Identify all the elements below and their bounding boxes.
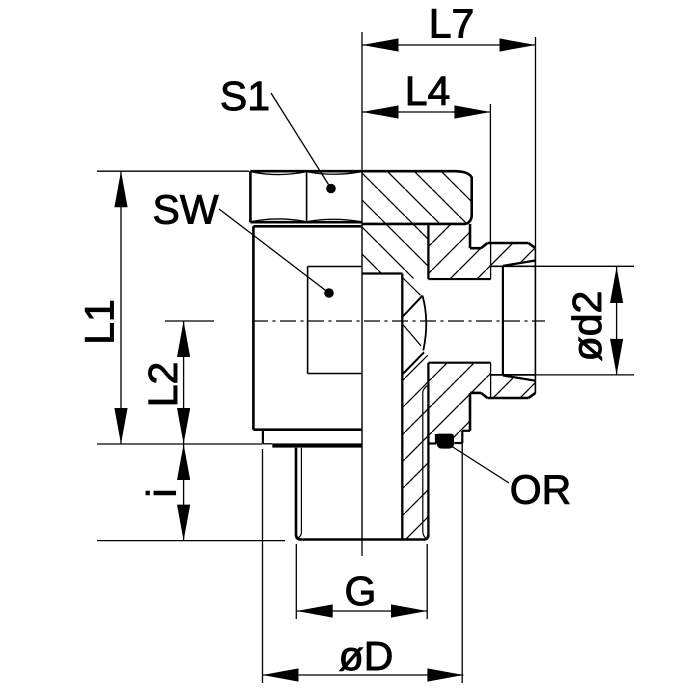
nut top edge [250, 171, 471, 177]
nut bottom edge left view [250, 221, 362, 224]
svg-text:i: i [139, 488, 185, 497]
groove left wall [435, 434, 437, 444]
oD arrow right [427, 668, 463, 681]
body right edge lower [469, 393, 472, 431]
L4 arrow left [363, 105, 399, 118]
dimension G [296, 544, 427, 619]
stud bottom right corner [424, 535, 429, 540]
body groove step horizontal [462, 430, 470, 432]
svg-text:SW: SW [152, 187, 218, 233]
oD right extension line [461, 453, 463, 683]
section dividing centerline vertical [361, 32, 363, 556]
nut hex interface line section [362, 223, 466, 226]
port countersink top [503, 261, 536, 266]
G arrow right [391, 604, 427, 617]
L2 dimension line [183, 321, 185, 444]
stud crest right section [427, 363, 429, 535]
port bottom right chamfer [529, 393, 536, 398]
L1 top extension line [97, 170, 249, 172]
chamber top edge [428, 278, 490, 280]
od2 top extension line [536, 265, 635, 267]
O-ring section blob OR [437, 434, 455, 449]
od2 dimension line [616, 267, 618, 375]
dimension L4 [363, 104, 491, 243]
port top left chamfer [481, 243, 488, 248]
od2 bottom extension line [536, 374, 635, 376]
nut section bottom right corner [466, 215, 472, 224]
stem tip cone upper [402, 296, 422, 317]
hatching region: stud right wall section [402, 352, 428, 539]
G right extension line [426, 544, 428, 619]
L4 dimension line [363, 111, 491, 113]
L2 arrow top [177, 321, 190, 357]
seat cone thin upper [403, 278, 421, 295]
nut facet chamfer arc top right [308, 172, 360, 174]
L1 bottom extension line [97, 443, 262, 445]
port top crest [488, 242, 529, 245]
chamber bottom edge [428, 362, 490, 364]
stud thread G left view [296, 448, 428, 540]
SW hex facet line bottom [308, 373, 362, 375]
svg-text:G: G [345, 568, 377, 614]
hatching region: stem strip section [362, 224, 428, 279]
body bottom edge [253, 428, 362, 431]
body groove step vertical [461, 431, 463, 443]
port bottom left chamfer [481, 393, 488, 398]
port bore bottom edge [491, 374, 536, 376]
L4 right extension line [489, 104, 491, 243]
label SW with leader [219, 209, 329, 293]
dimension L1 [97, 171, 262, 444]
washer left edge [262, 430, 264, 444]
dimension od2 [536, 266, 635, 375]
seat cone thin lower [403, 325, 421, 346]
port bottom crest [488, 397, 529, 400]
body section right side: port and interior [428, 224, 535, 454]
port bore top edge [491, 265, 536, 267]
body top edge [253, 225, 362, 228]
L1 dimension line [120, 171, 122, 444]
svg-text:S1: S1 [220, 73, 270, 119]
G left extension line [295, 544, 297, 619]
stud root left thin [298, 448, 301, 538]
svg-text:øD: øD [339, 633, 394, 679]
dimension L2 [165, 321, 214, 444]
body left edge [252, 226, 255, 429]
i arrow bottom [177, 505, 190, 541]
svg-text:L4: L4 [405, 68, 451, 114]
oD arrow left [263, 668, 299, 681]
oD dimension line [263, 674, 464, 676]
svg-text:ød2: ød2 [564, 291, 610, 362]
stem outer wall vertical [427, 224, 429, 279]
i arrow top [177, 444, 190, 480]
body outline left view [253, 226, 362, 429]
hatching region: body bottom and lower port wall [428, 363, 535, 443]
port thread start vertical bottom [490, 363, 492, 398]
SW hex facet line vertical [307, 267, 309, 374]
svg-text:L7: L7 [429, 1, 475, 47]
hatching region: body neck and top port wall [428, 224, 535, 279]
od2 arrow top [610, 267, 623, 303]
oD left extension line [262, 449, 264, 683]
stem tip cone lower [402, 352, 424, 374]
seat sphere arc [423, 296, 427, 351]
nut facet chamfer arc top left [252, 172, 306, 175]
svg-text:L1: L1 [77, 299, 123, 345]
nut facet chamfer arc bottom left [252, 219, 306, 222]
nut S1 outer outline with hex section block [250, 171, 471, 224]
port counterbore step [502, 267, 504, 375]
stud bottom face [301, 538, 424, 541]
washer and seal left view [263, 430, 272, 444]
nut facet line [306, 172, 308, 222]
L7 dimension line [363, 44, 536, 46]
nut section right edge [470, 177, 473, 216]
svg-text:OR: OR [510, 466, 572, 512]
interior passage lines [362, 224, 491, 539]
G dimension line [297, 610, 427, 612]
stud root right thin with runout hook [423, 385, 429, 538]
dimension i [97, 444, 285, 541]
nut facet chamfer arc bottom right [308, 219, 360, 221]
bore top flat [362, 272, 402, 274]
port countersink bottom [503, 376, 536, 381]
groove ledge left of O-ring [428, 442, 436, 444]
port end face [534, 248, 536, 393]
port top right chamfer [529, 243, 536, 248]
od2 arrow bottom [610, 339, 623, 375]
body groove ledge right [454, 442, 462, 444]
i dimension line [183, 444, 185, 541]
L1 arrow bottom [114, 408, 127, 444]
SW hex facet line top [308, 266, 362, 268]
label S1 with leader [271, 93, 331, 189]
washer bottom ledge [263, 443, 272, 445]
i bottom extension line [97, 540, 285, 542]
nut left edge [249, 171, 252, 222]
stud crest left [296, 448, 301, 540]
body right edge upper [469, 224, 472, 248]
L1 arrow top [114, 171, 127, 207]
dimension L7 [363, 37, 536, 248]
L7 arrow right [500, 38, 536, 51]
port top root ledge [470, 247, 481, 250]
washer right edge section [461, 443, 463, 454]
O-ring seal band left view [272, 443, 361, 447]
port thread start vertical top [490, 243, 492, 279]
horizontal centerline dash-dot [252, 320, 545, 322]
port bottom root ledge [470, 392, 481, 395]
vertical bore right wall [401, 274, 403, 540]
svg-text:L2: L2 [140, 362, 186, 408]
G arrow left [297, 604, 333, 617]
hatching region: nut S1 hex section [362, 171, 472, 224]
L7 arrow left [363, 38, 399, 51]
label OR with leader [452, 447, 509, 484]
L4 arrow right [454, 105, 490, 118]
L7 right extension line [535, 37, 537, 248]
L2 top extension line [165, 320, 214, 322]
L2 arrow bottom [177, 408, 190, 444]
dimension oD [263, 449, 464, 683]
